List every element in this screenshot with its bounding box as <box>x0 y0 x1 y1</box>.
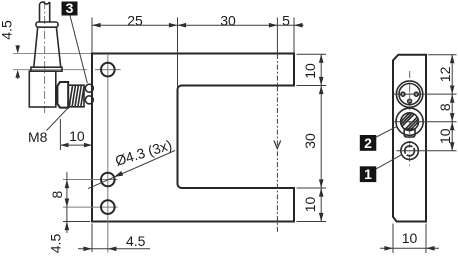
svg-text:25: 25 <box>127 12 143 28</box>
svg-text:5: 5 <box>282 12 290 28</box>
svg-text:10: 10 <box>302 197 318 213</box>
M8 leader <box>47 108 69 131</box>
beam axis dashed <box>276 54 278 234</box>
connector pin right <box>414 92 418 96</box>
svg-text:10: 10 <box>302 63 318 79</box>
svg-text:M8: M8 <box>28 129 48 145</box>
connector centerline <box>44 1 46 113</box>
dimension 8 left <box>49 172 69 233</box>
dimension 10 side <box>437 122 455 151</box>
side view right dimension line <box>451 55 453 151</box>
hole crosshair top <box>95 69 121 71</box>
potentiometer outer <box>396 108 423 135</box>
svg-text:4.5: 4.5 <box>0 20 14 40</box>
M8 connector face inner <box>399 84 420 105</box>
extension line top-left 4.5 upper <box>13 53 91 55</box>
dimension 10 side bottom <box>380 230 439 251</box>
potentiometer slot and hatch <box>401 113 418 130</box>
extension line bottom edge left <box>63 221 90 223</box>
svg-text:8: 8 <box>49 190 65 198</box>
connector boot taper <box>34 27 61 67</box>
screw crosshair <box>397 150 423 152</box>
label 3 box <box>62 0 78 16</box>
svg-text:10: 10 <box>437 128 453 144</box>
dimension 30 slot <box>302 86 323 189</box>
hole crosshair bottom <box>63 206 118 208</box>
adjustment screw inner <box>405 146 415 156</box>
svg-text:30: 30 <box>302 133 318 149</box>
dimension 10 bottom arm <box>302 188 323 222</box>
receptacle circle lower <box>85 96 93 104</box>
right dimension line <box>320 54 322 221</box>
label 3 leader <box>70 16 87 84</box>
connector cable <box>40 2 50 22</box>
connector threads <box>68 85 84 107</box>
bottom dimension extension line <box>91 224 93 253</box>
adjustment screw outer <box>401 142 419 160</box>
label 1 box <box>360 166 377 182</box>
potentiometer inner <box>401 113 419 131</box>
dimension 12 <box>437 55 455 94</box>
label 2 leader <box>376 126 397 137</box>
connector bead <box>36 22 58 27</box>
top dimension line <box>92 24 304 26</box>
extension line top-left 4.5 lower (hole center) <box>13 69 87 71</box>
top dimension extension lines <box>92 18 294 89</box>
sensor body outline (front view) <box>92 54 294 222</box>
label 1 leader <box>376 155 402 169</box>
mounting hole middle <box>101 173 115 187</box>
dimension 8 side <box>437 94 455 122</box>
svg-text:3: 3 <box>66 0 74 16</box>
connector body <box>29 71 56 107</box>
svg-text:1: 1 <box>364 166 372 182</box>
svg-text:12: 12 <box>437 66 453 82</box>
side view bottom extension lines <box>393 224 426 254</box>
screw slot <box>405 146 414 155</box>
svg-text:2: 2 <box>364 135 372 151</box>
dimension 25 <box>92 12 178 28</box>
potentiometer crosshair <box>394 121 425 123</box>
connector pin bottom <box>408 99 412 103</box>
M8 connector face outer <box>396 81 422 107</box>
dimension 10 top arm <box>302 54 323 85</box>
svg-text:10: 10 <box>69 128 85 144</box>
right dimension extension lines <box>297 54 327 221</box>
connector face crosshair <box>394 93 425 95</box>
beam axis arrow <box>274 141 281 149</box>
label 2 box <box>360 135 377 151</box>
side view right extension lines <box>423 55 457 151</box>
dimension 30 <box>178 12 278 28</box>
svg-text:4.5: 4.5 <box>126 233 146 249</box>
svg-text:4.5: 4.5 <box>48 234 64 254</box>
mounting hole bottom <box>101 200 115 214</box>
hole diameter label <box>88 137 175 189</box>
hole centerline vertical <box>107 55 109 253</box>
dimension 4.5 bottom-left vertical <box>48 222 70 254</box>
dimension 10 (connector to body edge) <box>60 119 92 150</box>
dimension 5 <box>282 12 302 28</box>
dimension 4.5 top-left <box>0 20 20 79</box>
svg-text:10: 10 <box>402 230 418 246</box>
side view outline <box>393 55 426 222</box>
dimension 4.5 bottom horizontal <box>78 233 150 251</box>
svg-text:8: 8 <box>437 103 453 111</box>
svg-text:30: 30 <box>220 12 236 28</box>
potentiometer tab <box>404 129 415 137</box>
connector nut <box>57 82 68 108</box>
hole crosshair middle <box>63 179 118 181</box>
mounting hole top <box>101 63 115 77</box>
connector collar <box>31 67 62 71</box>
side view centerline <box>409 71 411 166</box>
receptacle circle upper <box>85 84 93 92</box>
connector pin left <box>401 92 405 96</box>
